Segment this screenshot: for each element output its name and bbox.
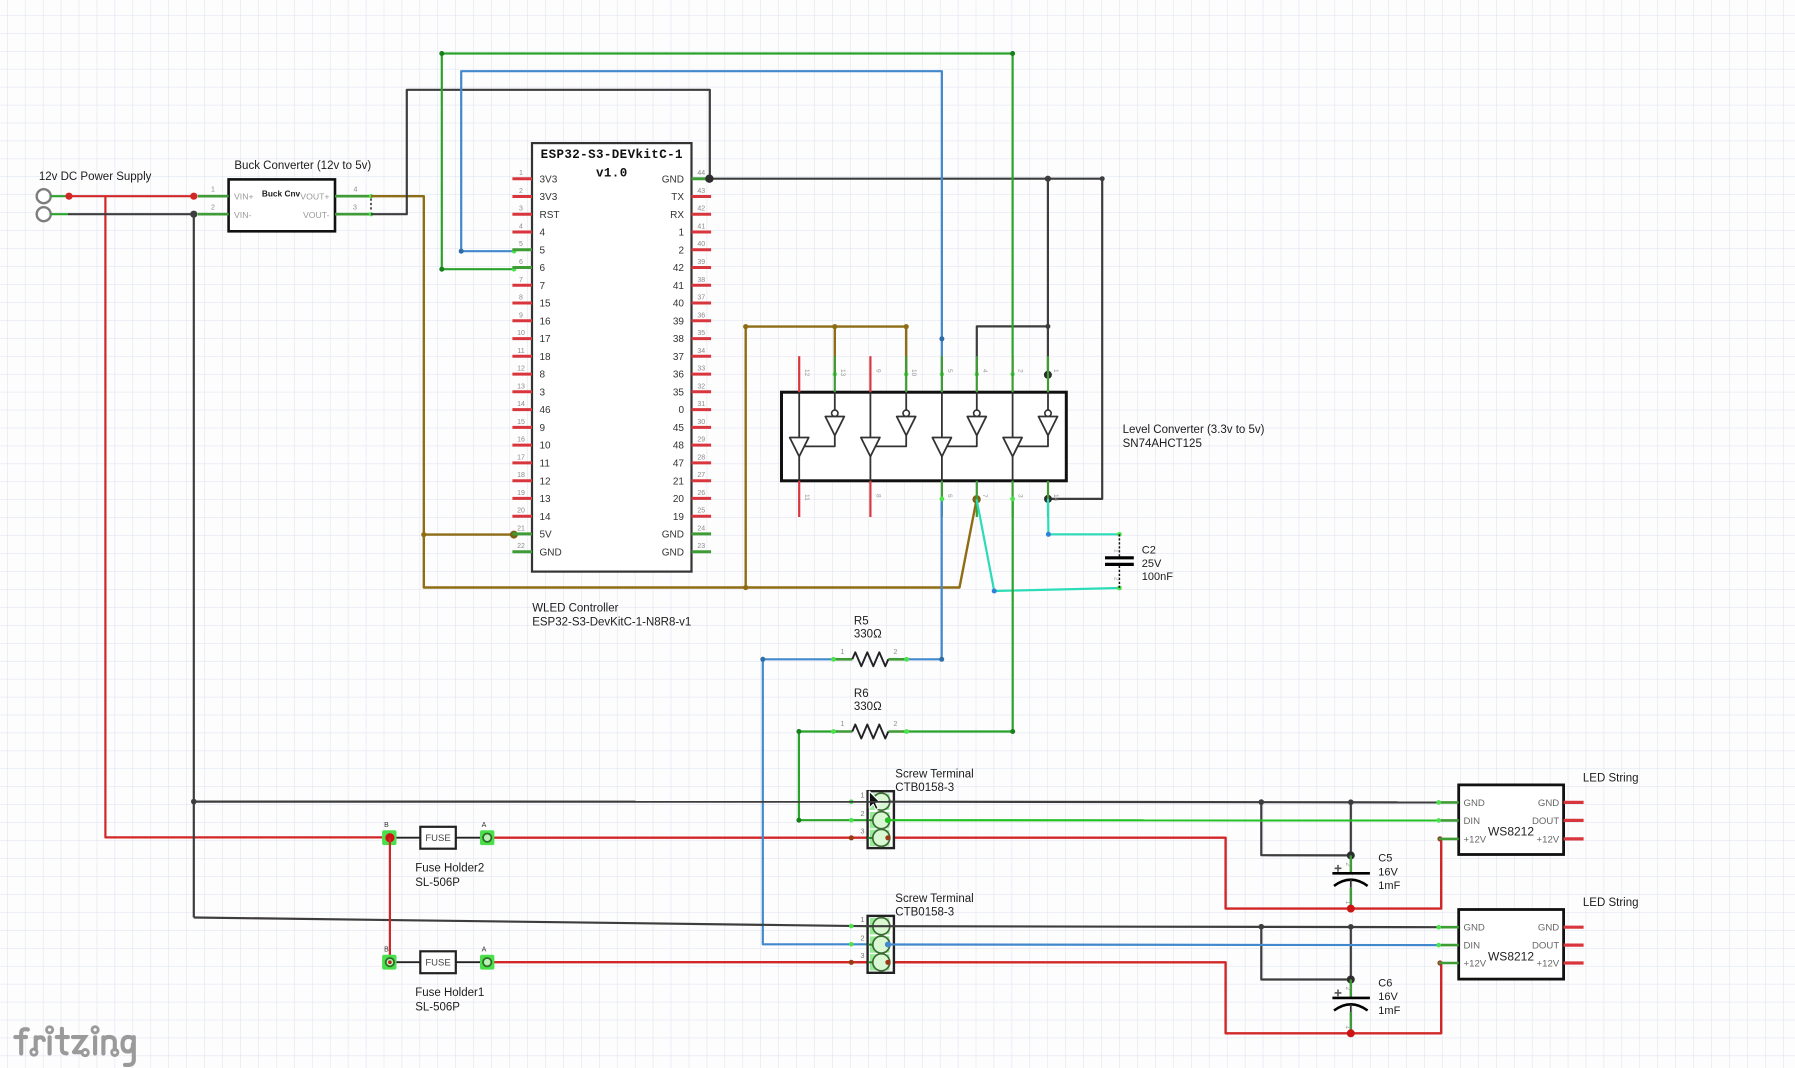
svg-text:16: 16 [517, 437, 525, 444]
svg-text:31: 31 [697, 401, 705, 408]
LC top pin 4 [977, 356, 988, 392]
svg-text:12: 12 [803, 369, 810, 377]
svg-text:Screw Terminal: Screw Terminal [895, 769, 973, 781]
svg-text:23: 23 [697, 543, 705, 550]
svg-text:24: 24 [697, 525, 705, 532]
wire blue DIN terminal2 to LED2 [888, 943, 1441, 948]
svg-text:5V: 5V [540, 530, 553, 541]
ESP32 left pin 11 (18) [512, 348, 551, 363]
svg-text:1: 1 [1113, 549, 1120, 553]
svg-text:44: 44 [697, 170, 705, 177]
wire red fuse2 B down to fuse1 B [389, 838, 391, 963]
svg-text:16V: 16V [1378, 866, 1398, 878]
svg-text:40: 40 [673, 299, 685, 310]
svg-text:VOUT-: VOUT- [303, 210, 330, 220]
svg-text:3V3: 3V3 [540, 174, 558, 185]
LC bottom pin 6 [942, 481, 953, 517]
svg-text:R6: R6 [854, 688, 869, 700]
svg-text:13: 13 [517, 383, 525, 390]
ESP32 right pin 35 (38) [673, 330, 711, 345]
LC buffer cell 1 [790, 392, 845, 481]
svg-text:WS8212: WS8212 [1488, 949, 1534, 963]
Screw Terminal 1 label [895, 769, 973, 795]
junction dark C5 positive [1347, 851, 1355, 859]
svg-text:Screw Terminal: Screw Terminal [895, 893, 973, 905]
svg-text:3V3: 3V3 [540, 192, 558, 203]
LC top pin 1 [1048, 356, 1059, 392]
svg-text:RST: RST [540, 210, 560, 221]
LC top pin 12 [799, 356, 810, 392]
junction brown at level converter pin7 [972, 495, 980, 503]
svg-text:2: 2 [211, 204, 215, 211]
Fuse Holder1 label [415, 987, 484, 1013]
wire red 12V rail down to fuse holder2 B [105, 196, 390, 837]
ratsnest dotted VOUT+ to VOUT- [370, 199, 372, 212]
buck converter U2 body [229, 179, 335, 231]
svg-text:SL-506P: SL-506P [415, 877, 460, 889]
fritzing watermark [15, 1027, 133, 1065]
svg-text:12: 12 [517, 366, 525, 373]
capacitor C5 1mF [1332, 855, 1370, 912]
svg-text:0: 0 [678, 405, 684, 416]
ESP32 right pin 44 (GND) [662, 170, 711, 185]
ESP32 right pin 37 (40) [673, 295, 711, 310]
wire supply- dark to buck VIN- [68, 211, 197, 218]
WLED Controller label [532, 603, 691, 629]
svg-text:C5: C5 [1378, 853, 1392, 865]
svg-text:46: 46 [540, 405, 552, 416]
svg-text:3: 3 [1017, 494, 1024, 498]
svg-text:WS8212: WS8212 [1488, 825, 1534, 839]
screw terminal J3 CTB0158-3 [860, 791, 893, 849]
ESP32 right pin 32 (35) [673, 383, 711, 398]
svg-text:1: 1 [519, 170, 523, 177]
svg-text:3: 3 [519, 206, 523, 213]
svg-text:+12V: +12V [1537, 834, 1560, 845]
buck pin 2 VIN- [198, 204, 229, 214]
green dot at LC pin4 top [975, 372, 979, 376]
svg-text:100nF: 100nF [1142, 571, 1173, 583]
svg-text:3: 3 [860, 951, 864, 960]
power supply terminal J2 [37, 207, 51, 221]
svg-text:C2: C2 [1142, 545, 1156, 557]
ESP32 right pin 28 (47) [673, 454, 711, 469]
svg-text:35: 35 [697, 330, 705, 337]
terminal1 connection dots [849, 799, 891, 840]
svg-text:39: 39 [697, 259, 705, 266]
svg-text:CTB0158-3: CTB0158-3 [895, 782, 954, 794]
Screw Terminal 2 label [895, 893, 973, 919]
ESP32 left pin 19 (13) [512, 490, 551, 505]
svg-text:14: 14 [517, 401, 525, 408]
svg-text:2: 2 [678, 245, 684, 256]
svg-text:21: 21 [673, 476, 685, 487]
12v DC Power Supply label [39, 171, 152, 183]
LED String 1 label [1583, 773, 1639, 785]
svg-text:DIN: DIN [1464, 816, 1481, 827]
LC top pin 9 [870, 356, 881, 392]
Level Converter label [1123, 424, 1265, 450]
svg-text:C6: C6 [1378, 977, 1392, 989]
mouse cursor [869, 791, 881, 809]
svg-text:2: 2 [894, 721, 898, 728]
svg-text:+12V: +12V [1537, 958, 1560, 969]
wire dark terminal1 to LED1 GND with C5 taps [888, 799, 1441, 855]
svg-text:45: 45 [673, 423, 685, 434]
svg-text:21: 21 [517, 525, 525, 532]
svg-text:2: 2 [860, 933, 864, 942]
svg-text:35: 35 [673, 387, 685, 398]
svg-text:3: 3 [540, 387, 546, 398]
svg-text:2: 2 [1344, 987, 1351, 991]
svg-text:27: 27 [697, 472, 705, 479]
svg-text:GND: GND [1538, 923, 1559, 934]
svg-text:17: 17 [517, 454, 525, 461]
wire supply- green stub [51, 213, 68, 215]
ESP32 right pin 25 (19) [673, 508, 711, 523]
resistor R5 330ohm [833, 616, 906, 667]
buck pin 3 VOUT- [335, 204, 373, 216]
svg-text:VIN-: VIN- [234, 210, 251, 220]
ESP32 left pin 2 (3V3) [512, 188, 557, 203]
svg-text:LED String: LED String [1583, 773, 1639, 785]
svg-text:5: 5 [540, 245, 546, 256]
ESP32 left pin 7 (7) [512, 277, 545, 292]
wire brown loop to level converter pins 13,10 [743, 324, 909, 590]
svg-text:SN74AHCT125: SN74AHCT125 [1123, 438, 1202, 450]
svg-text:FUSE: FUSE [425, 957, 450, 968]
svg-text:330Ω: 330Ω [854, 629, 882, 641]
LED string2 WS8212 [1439, 910, 1584, 980]
svg-text:A: A [482, 822, 487, 829]
wire teal LC pin14 to C2 pin1 [1046, 499, 1122, 537]
ESP32 left pin 6 (6) [512, 259, 545, 274]
ESP32 right pin 30 (45) [673, 419, 711, 434]
svg-text:47: 47 [673, 459, 685, 470]
wire blue R5 pin2 to LC pin6 [904, 497, 944, 662]
LC top pin 2 [1013, 356, 1024, 392]
ESP32 right pin 38 (41) [673, 277, 711, 292]
LC bottom pin 14 [1048, 481, 1059, 517]
svg-text:Buck Converter (12v to 5v): Buck Converter (12v to 5v) [234, 160, 371, 172]
svg-text:13: 13 [839, 369, 846, 377]
LC top pin 5 [942, 356, 953, 392]
svg-text:38: 38 [697, 277, 705, 284]
svg-text:330Ω: 330Ω [854, 701, 882, 713]
LC bottom pin 11 [799, 481, 810, 517]
ESP32 right pin 42 (RX) [670, 206, 711, 221]
power supply terminal J1 [37, 189, 51, 203]
svg-text:FUSE: FUSE [425, 833, 450, 844]
ESP32 left pin 18 (12) [512, 472, 551, 487]
wire dark GND rail down left side [193, 214, 195, 917]
ESP32 left pin 4 (4) [512, 224, 545, 239]
ESP32 right pin 29 (48) [673, 437, 711, 452]
ESP32 left pin 3 (RST) [512, 206, 559, 221]
LC bottom pin 7 [977, 481, 988, 517]
svg-text:1: 1 [841, 649, 845, 656]
capacitor C6 1mF [1332, 980, 1370, 1038]
svg-text:GND: GND [662, 547, 684, 558]
junction dark at ESP GND pin44 [705, 175, 713, 183]
svg-text:37: 37 [673, 352, 685, 363]
svg-text:25: 25 [697, 508, 705, 515]
svg-text:4: 4 [519, 224, 523, 231]
svg-text:4: 4 [981, 369, 988, 373]
svg-text:8: 8 [519, 295, 523, 302]
fuse holder2 SL-506P [382, 822, 494, 849]
ESP32 right pin 43 (TX) [671, 188, 711, 203]
LC buffer cell 2 [861, 392, 916, 481]
svg-text:4: 4 [540, 228, 546, 239]
svg-text:8: 8 [540, 370, 546, 381]
ESP32 left pin 12 (8) [512, 366, 545, 381]
ESP32 left pin 13 (3) [512, 383, 545, 398]
svg-text:GND: GND [662, 174, 684, 185]
fuse holder1 SL-506P [382, 947, 494, 974]
ESP32 left pin 17 (11) [512, 454, 550, 469]
ESP32 left pin 14 (46) [512, 401, 551, 416]
Fuse Holder2 label [415, 863, 484, 889]
svg-text:8: 8 [874, 494, 881, 498]
svg-text:2: 2 [1344, 862, 1351, 866]
svg-text:18: 18 [517, 472, 525, 479]
svg-text:DOUT: DOUT [1532, 816, 1559, 827]
wire dark terminal2 to LED2 GND with C6 taps [888, 924, 1441, 980]
svg-text:10: 10 [910, 369, 917, 377]
C5 value label [1378, 853, 1400, 893]
svg-text:5: 5 [519, 241, 523, 248]
ESP32 right pin 34 (37) [673, 348, 711, 363]
svg-text:12: 12 [540, 476, 552, 487]
svg-text:36: 36 [673, 370, 685, 381]
svg-text:SL-506P: SL-506P [415, 1001, 460, 1013]
svg-text:19: 19 [673, 512, 685, 523]
svg-text:14: 14 [540, 512, 552, 523]
svg-text:TX: TX [671, 192, 684, 203]
svg-text:1mF: 1mF [1378, 1005, 1400, 1017]
LED String 2 label [1583, 897, 1639, 909]
svg-text:1: 1 [860, 915, 864, 924]
svg-text:11: 11 [803, 494, 810, 501]
WLED Controller ESP32 U1 body [532, 143, 692, 571]
svg-text:DOUT: DOUT [1532, 941, 1559, 952]
svg-text:RX: RX [670, 210, 684, 221]
LC buffer cell 4 [1003, 392, 1057, 481]
terminal2 connection dots [849, 924, 891, 965]
junction dark on level converter pin14 stub [1044, 495, 1052, 503]
ESP32 left pin 1 (3V3) [512, 170, 557, 185]
svg-text:9: 9 [540, 423, 546, 434]
svg-text:7: 7 [981, 494, 988, 498]
svg-text:DIN: DIN [1464, 941, 1481, 952]
svg-text:43: 43 [697, 188, 705, 195]
svg-text:13: 13 [540, 494, 552, 505]
svg-text:25V: 25V [1142, 558, 1162, 570]
svg-text:ESP32-S3-DevKitC-1-N8R8-v1: ESP32-S3-DevKitC-1-N8R8-v1 [532, 616, 691, 628]
svg-text:40: 40 [697, 241, 705, 248]
svg-text:7: 7 [519, 277, 523, 284]
svg-text:30: 30 [697, 419, 705, 426]
svg-text:Fuse Holder2: Fuse Holder2 [415, 863, 484, 875]
ESP32 left pin 15 (9) [512, 419, 545, 434]
svg-text:B: B [384, 822, 389, 829]
svg-text:GND: GND [540, 547, 562, 558]
svg-text:6: 6 [540, 263, 546, 274]
svg-text:15: 15 [517, 419, 525, 426]
svg-text:11: 11 [540, 459, 551, 470]
svg-text:22: 22 [517, 543, 525, 550]
svg-text:1mF: 1mF [1378, 880, 1400, 892]
svg-text:26: 26 [697, 490, 705, 497]
ESP32 right pin 24 (GND) [662, 525, 711, 540]
svg-text:28: 28 [697, 454, 705, 461]
svg-text:34: 34 [697, 348, 705, 355]
svg-text:2: 2 [860, 809, 864, 818]
buck pin 1 VIN+ [198, 186, 229, 196]
svg-text:10: 10 [540, 441, 552, 452]
ESP32 right pin 26 (20) [673, 490, 711, 505]
Buck Converter label [234, 160, 371, 172]
ESP32 right pin 36 (39) [673, 312, 711, 327]
LC bottom pin 8 [870, 481, 881, 517]
C2 value label [1142, 545, 1173, 584]
LC top pin 13 [835, 356, 846, 392]
ESP32 right pin 41 (1) [678, 224, 711, 239]
wire green DIN terminal1 to LED1 [888, 818, 1441, 823]
wire supply+ red to buck VIN+ [65, 193, 197, 200]
capacitor C2 [1105, 534, 1134, 588]
svg-text:2: 2 [1017, 369, 1024, 373]
junction brown at 5V spur [421, 531, 518, 539]
svg-text:B: B [384, 947, 389, 954]
wire brown 5V: buck VOUT+ to ESP 5V and level converter pin7 [371, 196, 977, 587]
svg-text:15: 15 [540, 299, 552, 310]
svg-text:Fuse Holder1: Fuse Holder1 [415, 987, 484, 999]
wire dark GND rail to screw terminal1 pin1 [191, 799, 888, 805]
svg-text:2: 2 [894, 649, 898, 656]
svg-text:18: 18 [540, 352, 552, 363]
svg-text:48: 48 [673, 441, 685, 452]
svg-text:GND: GND [1464, 923, 1485, 934]
resistor R6 330ohm [833, 688, 906, 739]
svg-text:1: 1 [841, 721, 845, 728]
svg-text:29: 29 [697, 437, 705, 444]
wire red fuse1 A to LED string2 +12V [491, 960, 1442, 1033]
svg-text:+12V: +12V [1464, 834, 1487, 845]
svg-text:14: 14 [1052, 494, 1059, 502]
wire red fuse2 A to LED string1 +12V [491, 836, 1442, 908]
ESP32 right pin 40 (2) [678, 241, 711, 256]
ESP32 left pin 5 (5) [512, 241, 545, 256]
wire green R6 pin1 down to screw terminal1 pin2 [796, 729, 888, 823]
svg-text:37: 37 [697, 295, 705, 302]
svg-text:20: 20 [517, 508, 525, 515]
wire dark buck VOUT- up and over to ESP GND44 [371, 90, 710, 214]
svg-text:R5: R5 [854, 616, 869, 628]
svg-text:3: 3 [353, 204, 357, 211]
ESP32 right pin 39 (42) [673, 259, 711, 274]
svg-text:6: 6 [946, 494, 953, 498]
C6 value label [1378, 977, 1400, 1017]
svg-text:33: 33 [697, 366, 705, 373]
svg-text:42: 42 [697, 206, 705, 213]
svg-text:12v DC Power Supply: 12v DC Power Supply [39, 171, 152, 183]
screw terminal J4 CTB0158-3 [860, 915, 893, 973]
svg-text:9: 9 [874, 369, 881, 373]
svg-text:VOUT+: VOUT+ [300, 192, 329, 202]
svg-text:38: 38 [673, 334, 685, 345]
svg-text:ESP32-S3-DEVkitC-1: ESP32-S3-DEVkitC-1 [541, 148, 683, 162]
LC top pin 10 [906, 356, 917, 392]
junction dark C6 positive [1347, 976, 1355, 984]
svg-text:GND: GND [1538, 798, 1559, 809]
buck pin 4 VOUT+ [335, 186, 373, 198]
ESP32 right pin 23 (GND) [662, 543, 711, 558]
svg-text:16: 16 [540, 316, 552, 327]
svg-text:36: 36 [697, 312, 705, 319]
ESP32 left pin 9 (16) [512, 312, 551, 327]
svg-text:19: 19 [517, 490, 525, 497]
svg-text:41: 41 [673, 281, 685, 292]
ESP32 left pin 20 (14) [512, 508, 551, 523]
svg-text:2: 2 [519, 188, 523, 195]
wire blue R5 pin1 down to screw terminal2 pin2 [760, 657, 888, 945]
svg-text:1: 1 [860, 791, 864, 800]
wire green ESP pin6 to level converter pin2 [439, 51, 1015, 376]
svg-text:A: A [482, 947, 487, 954]
ESP32 left pin 21 (5V) [512, 525, 552, 540]
junction dark on level converter pin1 stub [1044, 371, 1052, 379]
svg-text:39: 39 [673, 316, 685, 327]
svg-text:9: 9 [519, 312, 523, 319]
svg-text:42: 42 [673, 263, 685, 274]
svg-text:1: 1 [1344, 1025, 1351, 1029]
svg-text:Buck Cnv: Buck Cnv [262, 189, 301, 199]
svg-text:CTB0158-3: CTB0158-3 [895, 907, 954, 919]
LED string1 WS8212 [1439, 785, 1584, 855]
svg-text:4: 4 [354, 186, 358, 193]
svg-text:v1.0: v1.0 [596, 167, 628, 181]
wire green R6 pin2 to LC pin3 [904, 497, 1015, 735]
svg-text:3: 3 [860, 827, 864, 836]
svg-text:20: 20 [673, 494, 685, 505]
wire blue ESP pin5 to level converter pin5 [459, 71, 945, 376]
ESP32 right pin 33 (36) [673, 366, 711, 381]
svg-text:1: 1 [678, 228, 684, 239]
ESP32 right pin 31 (0) [678, 401, 711, 416]
svg-text:1: 1 [211, 186, 215, 193]
svg-text:41: 41 [697, 224, 705, 231]
svg-text:5: 5 [946, 369, 953, 373]
ESP32 right pin 27 (21) [673, 472, 711, 487]
svg-text:7: 7 [540, 281, 546, 292]
ESP32 left pin 8 (15) [512, 295, 551, 310]
svg-text:LED String: LED String [1583, 897, 1639, 909]
svg-text:VIN+: VIN+ [234, 192, 254, 202]
svg-text:1: 1 [1052, 369, 1059, 373]
svg-text:17: 17 [540, 334, 552, 345]
svg-text:11: 11 [517, 348, 524, 355]
svg-text:GND: GND [1464, 798, 1485, 809]
Level Converter U3 SN74AHCT125 body [782, 392, 1067, 481]
svg-text:16V: 16V [1378, 991, 1398, 1003]
wire teal LC pin7 to C2 pin2 [977, 499, 1122, 593]
ESP32 left pin 22 (GND) [512, 543, 561, 558]
LC bottom pin 3 [1013, 481, 1024, 517]
LC buffer cell 3 [932, 392, 986, 481]
ESP32 left pin 10 (17) [512, 330, 551, 345]
